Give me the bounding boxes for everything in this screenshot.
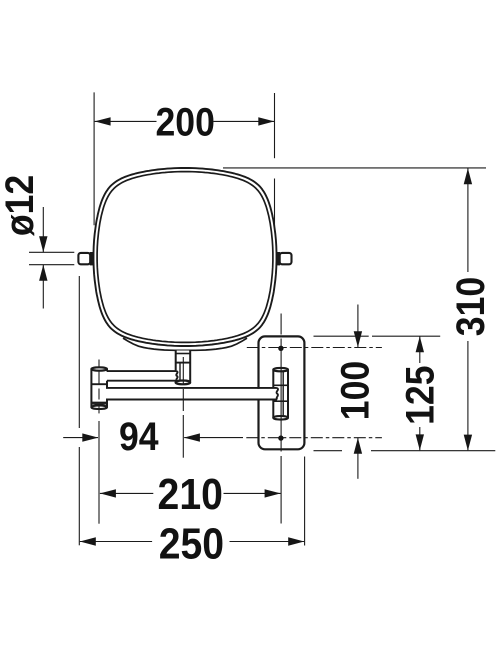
dimension 310/125 extension line bottom xyxy=(314,450,343,452)
svg-text:125: 125 xyxy=(399,366,443,425)
dimension 250 line xyxy=(80,541,152,543)
right pivot knob xyxy=(280,253,292,264)
svg-text:100: 100 xyxy=(334,361,378,420)
svg-text:94: 94 xyxy=(119,415,159,459)
left pivot knob xyxy=(78,253,90,264)
mirror head outer outline xyxy=(94,168,277,346)
mirror head inner outline xyxy=(97,172,273,343)
dimension 250 extension line right xyxy=(304,457,306,546)
lower screw centerline xyxy=(246,437,382,439)
svg-text:200: 200 xyxy=(156,101,215,145)
dimension 94 line xyxy=(63,437,98,439)
wall mounting plate xyxy=(259,336,305,449)
upper arm link xyxy=(105,371,178,381)
svg-text:250: 250 xyxy=(159,518,224,568)
dimension o12 line xyxy=(42,207,44,252)
dimension 210 line xyxy=(100,492,153,494)
wall plate centerline xyxy=(280,314,282,335)
lower screw hole xyxy=(278,435,283,440)
elbow centerline xyxy=(98,360,100,367)
mirror rim bottom lip xyxy=(123,338,247,350)
dimension 125 extension line top xyxy=(314,335,369,337)
dimension 100 line xyxy=(357,305,359,348)
upper screw centerline xyxy=(247,347,382,349)
svg-text:310: 310 xyxy=(449,277,493,336)
svg-text:210: 210 xyxy=(158,469,223,519)
dimension 200 extension line right xyxy=(274,93,276,158)
dimension 250 extension line left xyxy=(78,276,80,428)
dimension 310 line xyxy=(467,169,469,273)
dimension 200 extension line left xyxy=(93,92,95,225)
mirror stem centerline xyxy=(182,357,184,385)
dimension 200 line xyxy=(95,120,157,122)
dimension 310 extension line top xyxy=(223,167,486,169)
dimension o12 extension lines xyxy=(29,251,74,253)
elbow pivot cylinder xyxy=(91,367,107,409)
lower arm link xyxy=(105,388,278,400)
mirror stem collar xyxy=(176,351,191,385)
dimension 125 line xyxy=(419,336,421,363)
svg-text:ø12: ø12 xyxy=(0,175,42,236)
wall bracket cylinder xyxy=(273,368,288,420)
left pivot knob flange xyxy=(90,252,93,265)
right pivot knob flange xyxy=(277,252,280,265)
upper screw hole xyxy=(278,346,283,351)
